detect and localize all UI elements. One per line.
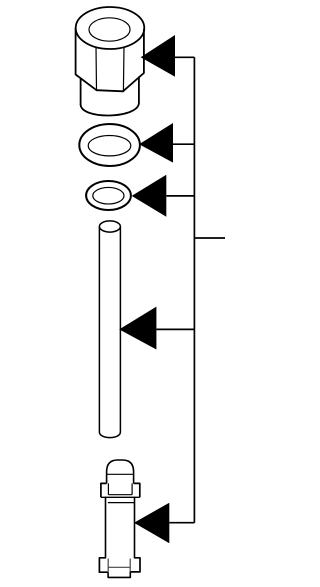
tube body [99, 227, 120, 438]
reference stub line [194, 237, 225, 239]
hex cap fitting body [76, 29, 144, 92]
injector lower inner edges [108, 559, 130, 573]
injector cap dome [107, 460, 134, 484]
arrow 5 (injector) [134, 503, 169, 544]
leader line arrow 3 [166, 195, 194, 197]
arrow 2 (washer) [139, 123, 173, 163]
injector upper left tab [101, 483, 107, 497]
injector lower left tab [99, 558, 108, 572]
arrow 4 (tube) [119, 307, 156, 350]
hex cap fitting top inner ellipse [89, 18, 130, 41]
injector neck inner edges [108, 483, 132, 494]
injector bottom cap [108, 572, 130, 578]
hex cap fitting lower cylinder [81, 77, 139, 115]
washer outer ellipse [79, 124, 140, 166]
tube top ellipse [99, 221, 120, 232]
bracket vertical line [193, 57, 195, 522]
arrow 3 (o-ring) [132, 175, 167, 217]
injector upper right tab [134, 483, 140, 497]
o-ring outer ellipse [86, 181, 131, 210]
injector main body sides [106, 497, 135, 558]
leader line arrow 1 [175, 56, 194, 58]
arrow 1 (hex cap) [141, 35, 175, 77]
washer inner ellipse [88, 136, 131, 156]
hex cap fitting top outer ellipse [76, 7, 145, 49]
leader line arrow 5 [169, 522, 194, 524]
o-ring inner ellipse [93, 187, 124, 204]
injector body upper inner line [108, 502, 134, 504]
injector lower right tab [130, 558, 140, 572]
injector upper tab bottom line [101, 496, 140, 498]
leader line arrow 2 [173, 143, 194, 145]
leader line arrow 4 [156, 328, 194, 330]
